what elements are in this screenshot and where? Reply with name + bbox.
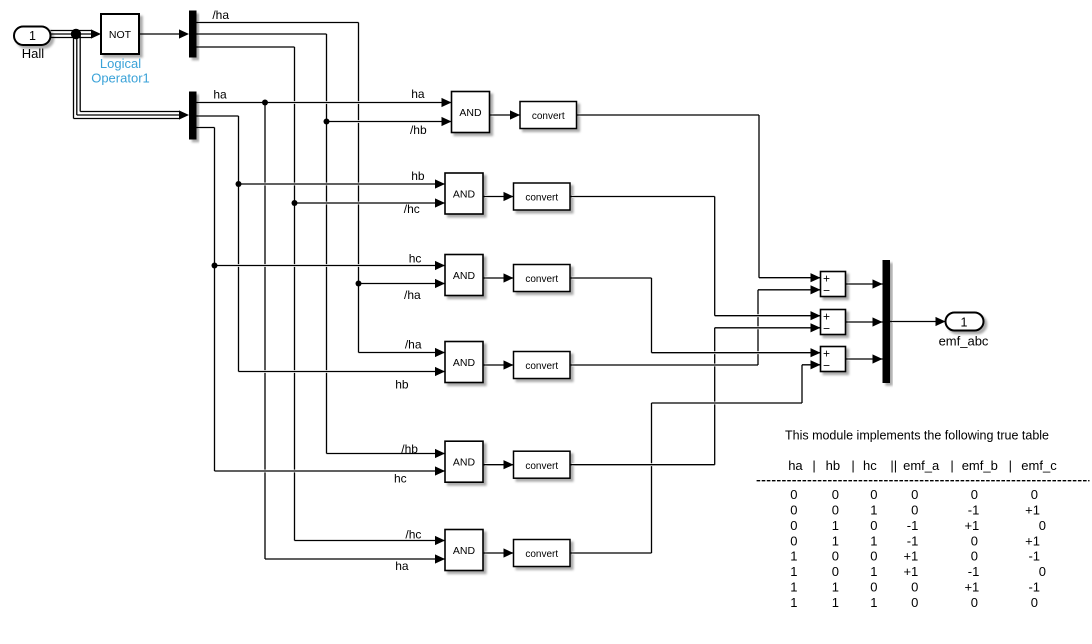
wire NOT to demux D1	[139, 33, 179, 35]
wire convert1 to Sum1 plus input : vertical	[758, 117, 761, 276]
svg-text:−: −	[823, 284, 830, 298]
junction bus split	[71, 29, 81, 39]
wire hc branch to AND3 first input	[217, 264, 444, 267]
wire AND1 to convert1	[492, 114, 519, 117]
wire hb from demux2 to AND4 second input : vertical	[237, 118, 240, 370]
convert block C4	[514, 352, 571, 379]
junction /hc	[292, 200, 298, 206]
svg-text:/hc: /hc	[405, 528, 421, 542]
wire convert4 to Sum1 minus input : vertical	[757, 292, 760, 363]
outport 1 emf_abc	[946, 313, 984, 331]
AND block A5	[445, 441, 483, 482]
svg-text:convert: convert	[525, 193, 558, 204]
AND block A4	[445, 342, 483, 383]
wire ha branch down to AND6 second input	[267, 558, 443, 561]
svg-text:ha: ha	[411, 87, 425, 101]
wire /hb branch to AND1 second input	[329, 120, 450, 123]
wire hb from demux2 to AND4 second input	[199, 115, 237, 118]
svg-text:AND: AND	[453, 545, 476, 557]
svg-text:Operator1: Operator1	[91, 71, 150, 86]
wire convert2 to Sum2 plus input : vertical	[713, 199, 716, 314]
svg-text:1: 1	[29, 29, 36, 43]
svg-text:hc: hc	[409, 251, 422, 265]
annotation: truth table separator line	[757, 480, 1090, 482]
wire /hb from demux1 to AND5 first input	[199, 33, 325, 36]
wire convert6 to Sum3 minus input	[572, 552, 650, 555]
junction /hb	[324, 119, 330, 125]
junction hb	[236, 181, 242, 187]
sum block S2	[821, 310, 846, 336]
wire AND6 to convert6	[485, 552, 512, 555]
svg-text:AND: AND	[459, 107, 482, 119]
svg-text:−: −	[823, 322, 830, 336]
wire /hc branch to AND2 second input	[297, 202, 444, 205]
svg-text:Hall: Hall	[22, 46, 45, 61]
demux D1 (inverted hall signals)	[189, 11, 197, 58]
convert block C5	[514, 451, 571, 478]
wire /ha branch to AND3 second input	[361, 282, 444, 285]
sum block S3	[821, 347, 846, 373]
AND block A1	[452, 92, 490, 133]
wire convert5 to Sum2 minus input : vertical	[713, 330, 716, 463]
svg-text:AND: AND	[453, 357, 476, 369]
wire convert2 to Sum2 plus input	[572, 195, 713, 198]
wire Sum3 to mux	[848, 358, 881, 361]
inport 1 Hall	[14, 27, 51, 46]
wire /ha from demux1 to AND4 first input	[199, 21, 357, 24]
AND block A2	[445, 173, 483, 214]
svg-text:/hc: /hc	[404, 202, 420, 216]
svg-text:/hb: /hb	[401, 442, 418, 456]
convert block C6	[514, 540, 571, 567]
junction ha	[262, 100, 268, 106]
convert block C2	[514, 183, 571, 210]
svg-text:/ha: /ha	[404, 288, 421, 302]
svg-text:AND: AND	[453, 270, 476, 282]
logical operator NOT block	[101, 14, 139, 54]
wire ha branch down to AND6 second input : vertical	[264, 105, 267, 558]
wire /hb from demux1 to AND5 first input : vertical	[325, 36, 328, 452]
wire hc from demux2 to AND5 second input : vertical	[213, 130, 216, 470]
svg-text:convert: convert	[525, 461, 558, 472]
svg-text:/ha: /ha	[212, 8, 229, 22]
svg-text:hc: hc	[394, 472, 407, 486]
svg-text:hb: hb	[395, 377, 409, 391]
mux M1	[883, 260, 891, 383]
AND block A3	[445, 255, 483, 296]
svg-text:ha: ha	[395, 559, 409, 573]
junction /ha	[356, 281, 362, 287]
svg-text:hb: hb	[411, 169, 425, 183]
junction hc	[212, 263, 218, 269]
wire convert5 to Sum2 minus input	[572, 463, 713, 466]
svg-text:AND: AND	[453, 457, 476, 469]
convert block C3	[514, 265, 571, 292]
wire AND5 to convert5	[485, 463, 512, 466]
svg-text:ha: ha	[213, 88, 227, 102]
wire convert4 to Sum1 minus input	[572, 364, 756, 367]
svg-text:NOT: NOT	[109, 29, 132, 41]
svg-text:convert: convert	[525, 274, 558, 285]
sum block S1	[821, 272, 846, 298]
wire convert6 to Sum3 minus input : vertical	[650, 405, 653, 551]
wire convert1 to Sum1 plus input	[579, 114, 758, 117]
wire convert3 to Sum3 plus input : vertical	[650, 280, 653, 351]
svg-text:/hb: /hb	[410, 123, 427, 137]
wire /ha from demux1 to AND4 first input : vertical	[357, 25, 360, 351]
wire bus Hall to NOT (3 lines)	[51, 30, 92, 32]
wire AND2 to convert2	[485, 195, 512, 198]
wire /hc from demux1 to AND6 first input	[199, 46, 293, 49]
svg-text:convert: convert	[525, 549, 558, 560]
AND block A6	[445, 530, 483, 571]
svg-text:1: 1	[961, 315, 968, 329]
svg-text:This module implements the fol: This module implements the following tru…	[785, 429, 1049, 443]
wire AND3 to convert3	[485, 277, 512, 280]
svg-text:/ha: /ha	[405, 338, 422, 352]
wire Sum2 to mux	[848, 321, 881, 324]
svg-text:−: −	[823, 359, 830, 373]
svg-text:convert: convert	[525, 361, 558, 372]
wire mux to outport emf_abc	[892, 320, 944, 323]
svg-text:AND: AND	[453, 188, 476, 200]
wire hb branch to AND2 first input	[241, 183, 444, 186]
wire convert3 to Sum3 plus input	[572, 277, 650, 280]
wire /hc from demux1 to AND6 first input : vertical	[293, 49, 296, 539]
wire bus branch down to demux D2 (3 lines)	[73, 32, 75, 119]
svg-text:emf_abc: emf_abc	[939, 334, 989, 349]
demux D2 (hall signals)	[189, 92, 197, 140]
convert block C1	[520, 102, 577, 129]
wire AND4 to convert4	[485, 364, 512, 367]
svg-text:Logical: Logical	[100, 56, 141, 71]
wire ha from demux2 to AND1 first input	[199, 101, 450, 104]
wire hc from demux2 to AND5 second input	[199, 126, 213, 129]
wire Sum1 to mux	[848, 283, 881, 286]
svg-text:convert: convert	[532, 111, 565, 122]
